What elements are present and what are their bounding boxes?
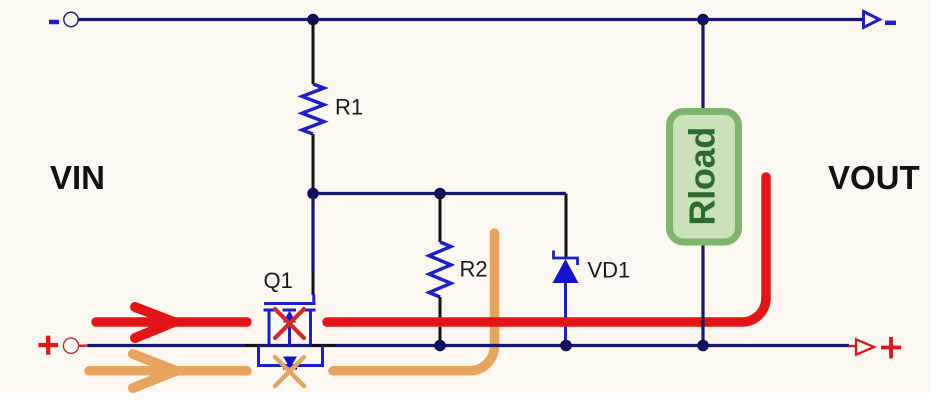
wire: orange right curve up [333,233,495,371]
resistor R1 [302,84,324,134]
channel segments [264,309,276,312]
zener diode VD1 [554,251,578,266]
wire: orange left shaft [89,366,247,376]
red arrow chevron [135,307,174,338]
svg-text:R2: R2 [460,257,488,282]
minus dash top-right [885,21,896,26]
terminal circle bottom-left [63,338,78,353]
wire: black lead left of Q1 [245,344,259,347]
wire: VD1 top lead [565,194,568,259]
red X over Q1 channel [275,309,304,338]
body line [288,322,291,346]
wire: R2 top lead [439,194,442,243]
wire: black lead right of Q1 [311,344,336,347]
orange arrow chevron [133,354,176,388]
node: gate junction [307,188,319,200]
wire: R1 bottom lead [312,134,315,194]
orange current path left with arrow [89,233,495,388]
wire: R1 top lead [312,20,315,85]
red current path with arrow [96,177,766,338]
gate bar [264,294,316,304]
body diode symbol on loop [283,357,297,369]
minus dash top-left [49,20,59,25]
wire: red left shaft [96,317,247,327]
drain plate [309,310,312,345]
node: R2 bottom junction [434,340,446,352]
wire: red right curve up to VOUT [327,177,766,322]
node: top rail / R1 junction [307,14,319,26]
node: top rail / Rload junction [697,14,709,26]
node: VD1 bottom junction [560,340,572,352]
wire: top rail [78,18,863,21]
arrow terminal bottom-right [856,339,874,354]
plus sign bottom-left [38,336,58,355]
wire: red stub before arrow bottom-right [849,345,857,347]
svg-text:Q1: Q1 [264,268,293,293]
arrow terminal top-right [864,12,880,28]
svg-text:VIN: VIN [50,159,105,196]
orange X over body diode [275,357,304,386]
source plate [268,310,271,345]
svg-text:VOUT: VOUT [828,159,920,196]
body diode loop [259,346,323,366]
transistor Q1 (P-MOSFET) [259,294,323,366]
wire: mid horizontal [313,192,566,195]
body arrow of Q1 [283,311,296,323]
wire: Rload bottom lead [701,246,704,346]
wire: red stub after circle [79,345,89,347]
terminal circle top-left [64,12,78,26]
wire: R2 bottom lead [439,297,442,346]
resistor R2 [429,242,451,297]
node: Rload bottom junction [697,340,709,352]
wire: Rload top lead [701,20,704,109]
svg-text:Rload: Rload [682,127,723,226]
svg-text:VD1: VD1 [588,258,631,283]
node: R2 top junction [434,188,446,200]
svg-text:R1: R1 [335,95,363,120]
wire: gate vertical [311,194,314,272]
wire: bottom rail [87,344,849,347]
resistor Rload (green box) [670,112,739,243]
plus sign bottom-right [881,337,901,358]
